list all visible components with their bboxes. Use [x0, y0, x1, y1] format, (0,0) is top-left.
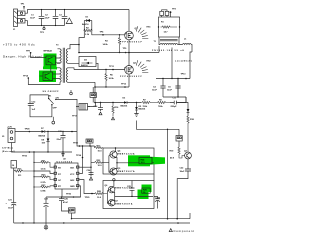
wire clamp left leg	[79, 21, 84, 53]
wire T1 primary left to mid node	[158, 46, 160, 53]
zener D8	[42, 131, 50, 152]
svg-text:FFP6R999CF: FFP6R999CF	[120, 76, 143, 78]
bias input J5	[2, 126, 15, 153]
svg-text:R18: R18	[190, 119, 194, 121]
wire upper emitters out	[116, 158, 140, 169]
test point TP11	[109, 66, 115, 70]
capacitor C1	[30, 9, 44, 26]
wire bottom input rail	[25, 21, 65, 26]
svg-text:OC: OC	[58, 180, 62, 182]
wire lower bases	[107, 189, 110, 204]
wire T3 secondary taps	[68, 63, 96, 102]
ground symbol sense	[70, 90, 73, 95]
capacitor C2	[45, 9, 59, 26]
svg-text:47uF: 47uF	[63, 201, 69, 204]
bias ground rail	[12, 143, 73, 153]
wire cap bottoms	[163, 97, 186, 103]
svg-text:GND: GND	[70, 186, 75, 188]
output rail right	[72, 213, 191, 219]
IC U2	[54, 159, 79, 190]
component note	[169, 229, 197, 233]
capacitor C3	[59, 9, 67, 26]
test point TP14	[23, 74, 60, 84]
transistor Q8 highlight	[39, 71, 56, 83]
resistor R7	[141, 99, 153, 108]
sense rail	[95, 102, 141, 104]
svg-text:MMBT2222A: MMBT2222A	[117, 152, 135, 155]
svg-text:BAS16: BAS16	[81, 64, 89, 67]
capacitor C4	[152, 78, 166, 97]
svg-text:12uF: 12uF	[30, 17, 36, 19]
resistor R2	[84, 27, 93, 36]
test point TP13	[181, 74, 187, 80]
svg-text:BAT54: BAT54	[39, 134, 46, 137]
resistor R17	[95, 145, 104, 152]
capacitor C5	[167, 78, 181, 97]
test point TP8	[26, 50, 46, 57]
capacitor C15	[57, 131, 66, 152]
capacitor C11	[170, 98, 186, 109]
wire lower emitters	[113, 192, 153, 200]
wire driver bases	[103, 154, 112, 172]
wire IC pin VCC	[80, 146, 83, 173]
test point TP12	[121, 83, 127, 87]
svg-text:+375 to 400 Vdc: +375 to 400 Vdc	[3, 43, 35, 47]
warning triangle	[66, 18, 72, 24]
svg-text:TP12: TP12	[121, 83, 127, 85]
resistor R21	[34, 160, 54, 170]
capacitor C24	[87, 169, 94, 180]
test point TP23	[22, 151, 30, 157]
soft start box	[30, 95, 52, 117]
svg-text:TP23: TP23	[22, 156, 28, 158]
wire resonant cap rail	[156, 47, 192, 79]
boxed resistor R24	[139, 157, 154, 164]
svg-text:TP22: TP22	[73, 143, 79, 145]
wire IC bottom pins	[46, 189, 81, 197]
jumper box bias	[86, 139, 93, 147]
svg-text:TP14: TP14	[23, 74, 29, 77]
transformer T3	[56, 45, 68, 83]
ground return wire	[137, 121, 180, 130]
svg-text:18uF: 18uF	[180, 171, 186, 173]
inductor L1	[179, 39, 192, 48]
svg-text:MPSA42: MPSA42	[44, 50, 53, 53]
mosfet Q2	[120, 63, 143, 88]
svg-text:MMBT2222A: MMBT2222A	[115, 186, 133, 189]
test point TP1	[21, 4, 26, 10]
ground long vertical	[167, 129, 169, 218]
svg-text:TP28: TP28	[25, 128, 31, 130]
transformer T1 windings	[154, 37, 180, 45]
diode D3	[121, 98, 131, 108]
svg-text:MMBT2907A: MMBT2907A	[115, 203, 133, 206]
jumper TP17	[72, 104, 90, 118]
ground arrow	[44, 223, 48, 230]
svg-text:TP17: TP17	[72, 116, 78, 118]
transistor Q3	[44, 50, 61, 73]
svg-text:TP13: TP13	[181, 74, 187, 76]
svg-text:6.99k: 6.99k	[41, 191, 47, 193]
svg-text:+12V: +12V	[7, 126, 13, 128]
resistor R6	[105, 69, 115, 87]
svg-text:TP24: TP24	[76, 154, 82, 157]
mosfet Q1	[120, 10, 143, 67]
resistor R28	[85, 191, 108, 199]
transistor Q8	[43, 72, 60, 81]
connector J1	[13, 9, 25, 31]
test point TP22	[73, 143, 80, 147]
test point TP28	[25, 128, 31, 132]
wire TP17 to C14	[88, 103, 96, 107]
wire Lm branch	[171, 48, 173, 79]
svg-text:16.9k: 16.9k	[109, 78, 115, 80]
wire bias line	[15, 131, 42, 133]
resistor R8	[153, 99, 170, 108]
transistor Q4	[110, 147, 135, 158]
jumper box small	[90, 87, 97, 103]
transformer T1 assembly top	[158, 9, 180, 37]
svg-text:220pF: 220pF	[171, 106, 178, 108]
wire clamp right to gate	[92, 21, 125, 35]
capacitor C12	[28, 101, 36, 111]
wire top rail	[25, 10, 129, 14]
wire IC pin GD1	[80, 166, 92, 168]
diode D6	[178, 103, 190, 117]
test point TP4	[100, 31, 105, 36]
transistor Q3 highlight	[44, 54, 57, 69]
resistor R23	[14, 168, 35, 177]
test point TP3	[40, 26, 45, 35]
svg-text:BAV16: BAV16	[82, 23, 89, 26]
diode D5	[134, 102, 146, 117]
resistor R16	[112, 102, 120, 120]
transistor Q6 highlight	[138, 185, 152, 200]
svg-text:22uF: 22uF	[57, 139, 63, 141]
resistor R3	[103, 34, 121, 53]
svg-text:(External): (External)	[2, 150, 15, 153]
driver feed vertical	[90, 146, 92, 174]
svg-text:TP11: TP11	[109, 66, 115, 68]
svg-text:12uF: 12uF	[152, 90, 158, 92]
transistor Q7	[108, 199, 133, 206]
wire T3 secondary top to mid node	[68, 45, 80, 49]
upper driver box	[103, 148, 154, 174]
svg-text:FFP6R999CF: FFP6R999CF	[120, 42, 143, 44]
wire IC pin GD2	[80, 180, 96, 194]
test point TP9	[123, 48, 128, 54]
capacitor C28	[44, 197, 49, 223]
svg-text:10uF: 10uF	[8, 208, 14, 210]
svg-text:Components: Components	[174, 229, 195, 233]
wire resonant caps to sense rail	[178, 79, 186, 103]
svg-text:TP25: TP25	[85, 197, 91, 199]
svg-text:BAS16: BAS16	[121, 105, 129, 108]
test point bottom of box	[52, 121, 55, 124]
test point TP19	[113, 179, 115, 181]
capacitor C14	[94, 102, 104, 115]
test point TP26	[66, 194, 74, 198]
diode D7	[39, 128, 51, 138]
resistor R18	[187, 116, 195, 152]
node mid half-bridge	[79, 52, 159, 54]
ground rail main	[14, 222, 190, 224]
wire IC pin GND	[62, 186, 81, 197]
switch S1	[48, 95, 59, 110]
svg-text:VCC: VCC	[70, 174, 75, 176]
resistor R19	[170, 147, 185, 159]
svg-text:12uF: 12uF	[167, 90, 173, 92]
svg-text:BAS16: BAS16	[139, 108, 147, 111]
svg-text:TP26: TP26	[66, 194, 72, 196]
resistor R22	[91, 160, 103, 167]
jumper J6	[11, 161, 17, 200]
capacitor C31	[154, 196, 160, 208]
svg-text:12V Bias: 12V Bias	[2, 148, 14, 150]
left bus	[33, 152, 35, 223]
wire Q2 source line	[95, 86, 129, 88]
capacitor C25	[127, 181, 135, 197]
wire bias to vcc	[50, 132, 95, 147]
svg-text:15V: 15V	[42, 143, 46, 145]
heatsink HS2	[136, 60, 151, 72]
svg-text:FN1865.186 55 uH: FN1865.186 55 uH	[152, 50, 185, 52]
wire pin2 row	[34, 171, 54, 173]
jumper box J4	[176, 129, 182, 147]
diode D4 box	[79, 57, 98, 70]
resistor R20	[34, 175, 54, 185]
svg-text:SS ON/OFF: SS ON/OFF	[43, 91, 60, 93]
svg-text:12uF: 12uF	[45, 17, 51, 19]
diode D1	[82, 17, 92, 27]
transistor Q4 highlight	[128, 155, 165, 166]
heatsink HS1	[136, 26, 151, 38]
capacitor C21	[6, 199, 17, 223]
transistor Q3	[184, 151, 191, 159]
wire switch to bias node	[56, 99, 77, 131]
transistor Q6	[105, 185, 134, 193]
svg-text:2.37k: 2.37k	[41, 182, 47, 184]
svg-text:OFF: OFF	[53, 108, 58, 110]
boxed resistor R26	[142, 188, 150, 194]
resistor R27	[34, 185, 54, 193]
transistor Q5	[110, 168, 135, 175]
jumper box bottom	[69, 208, 76, 220]
svg-text:12.1k: 12.1k	[41, 168, 47, 170]
svg-text:MMBT2907A: MMBT2907A	[117, 170, 135, 173]
wire Q2 gate line	[74, 67, 125, 69]
svg-text:14.0k: 14.0k	[103, 43, 109, 46]
capacitor C22	[177, 159, 191, 219]
capacitor C26	[59, 196, 72, 211]
lower driver box	[103, 181, 154, 209]
